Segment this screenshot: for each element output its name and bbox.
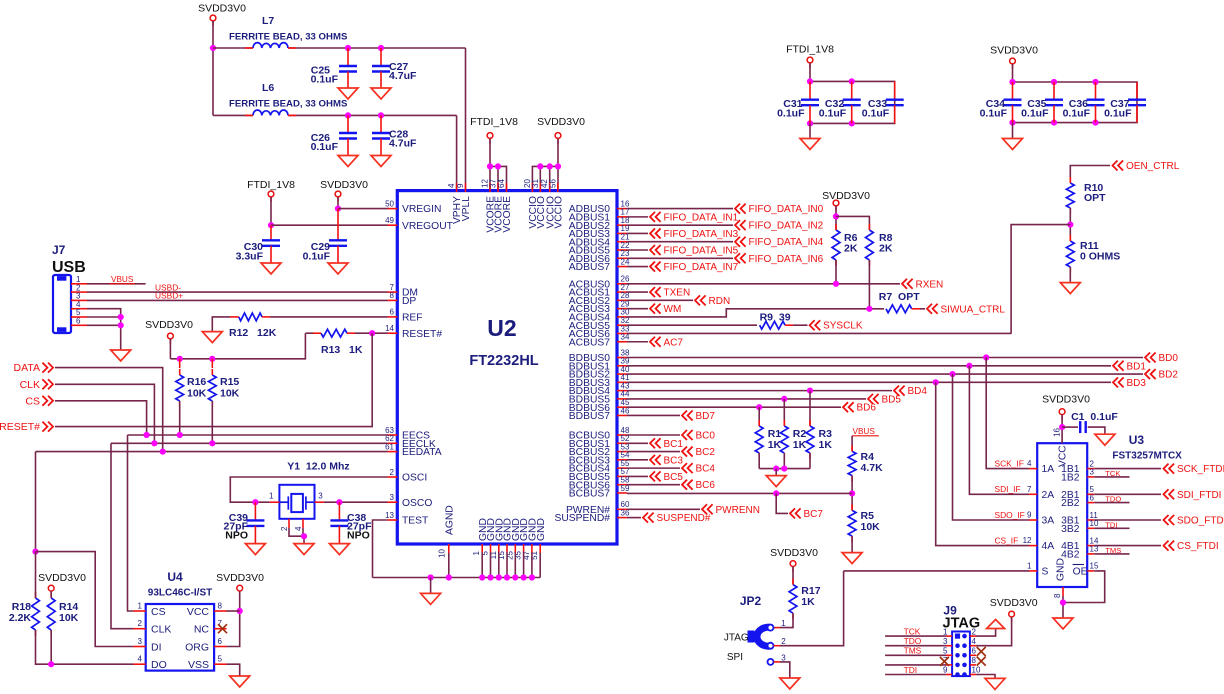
svg-text:VPLL: VPLL (461, 196, 472, 221)
net label BC3 (650, 455, 683, 467)
junction R16 top (177, 356, 183, 362)
junction (555, 163, 561, 169)
pin 2 J7 (71, 283, 87, 292)
wire to R3 (809, 391, 811, 426)
junction (1051, 79, 1057, 85)
svg-text:SDI_FTDI: SDI_FTDI (1177, 490, 1221, 501)
net label VBUS (109, 275, 135, 284)
junction R6/R8 (833, 213, 839, 219)
svg-text:WM: WM (664, 304, 682, 315)
wire VCCIO pin 20 (532, 166, 558, 190)
wire JP2 pin 3 to ground (780, 662, 790, 678)
pin 12 VCORE (481, 179, 497, 233)
svg-text:VBUS: VBUS (111, 275, 134, 284)
wire R12 to REF (270, 316, 388, 318)
pin 55 BCBUS4 (569, 459, 630, 475)
svg-text:OSCI: OSCI (402, 473, 427, 484)
svg-text:0.1uF: 0.1uF (303, 251, 331, 263)
pin 46 BDBUS7 (569, 406, 630, 422)
svg-text:PWRENN: PWRENN (716, 505, 760, 516)
port RESET# (0, 421, 53, 433)
junction (479, 574, 485, 580)
net label WM (650, 304, 681, 316)
svg-text:0.1uF: 0.1uF (819, 108, 847, 120)
net label AC7 (650, 337, 683, 349)
svg-text:RESET#: RESET# (402, 329, 442, 340)
pin 27 ACBUS1 (569, 283, 630, 299)
junction (537, 163, 543, 169)
wire VCCIO pin 56 (557, 139, 559, 191)
svg-text:BD6: BD6 (857, 403, 877, 414)
pin 1 marker (square) (955, 634, 960, 639)
svg-text:CS: CS (25, 395, 40, 407)
ground C34 group (1003, 139, 1023, 150)
svg-text:1A: 1A (1042, 464, 1055, 475)
svg-text:9: 9 (943, 666, 948, 675)
svg-text:SDO_FTDI: SDO_FTDI (1177, 516, 1224, 527)
pin 37 VCORE (489, 179, 505, 233)
wire J9 left (885, 645, 946, 647)
wire SDO_FTDI (1094, 519, 1161, 521)
svg-text:4A: 4A (1042, 541, 1055, 552)
power SVDD3V0 (R15/R16) (168, 333, 174, 344)
svg-text:C1 0.1uF: C1 0.1uF (1071, 411, 1118, 423)
net label SDI_FTDI (1164, 489, 1222, 501)
svg-text:6: 6 (972, 647, 977, 656)
pin 14 RESET# (385, 324, 442, 340)
svg-text:FERRITE BEAD, 33 OHMS: FERRITE BEAD, 33 OHMS (229, 32, 348, 43)
pin 8 J9 (970, 656, 977, 665)
pin 32 ACBUS5 (569, 316, 630, 332)
wire C31 group rails (810, 81, 895, 123)
wire R12 to ground (212, 317, 230, 332)
wire EECS row (128, 434, 388, 436)
wire BDBUS5 (627, 398, 866, 400)
resistor R2 (780, 420, 806, 459)
svg-text:FST3257MTCX: FST3257MTCX (1112, 451, 1182, 462)
wire VCC pin 16 (1061, 415, 1063, 444)
pin 6 J7 (71, 317, 87, 326)
junction (529, 574, 535, 580)
pin 10 J9 (970, 666, 981, 675)
junction C1 (1059, 424, 1065, 430)
ground J7 (111, 350, 131, 361)
wire VCC/ORG tie (227, 591, 240, 646)
svg-text:SVDD3V0: SVDD3V0 (198, 3, 246, 15)
wire JP2 to U3 S (844, 570, 1029, 572)
junction VREGIN (335, 206, 341, 212)
pin 50 VREGIN (385, 199, 441, 215)
junction BD0 tap (983, 354, 989, 360)
wire SVDD3V0 to R6 (835, 206, 837, 230)
wire EECS to U4 CS (128, 435, 134, 611)
svg-text:56: 56 (548, 179, 557, 188)
junction (487, 163, 493, 169)
wire TDO (1094, 502, 1129, 504)
svg-text:U4: U4 (167, 570, 183, 584)
svg-text:2: 2 (390, 468, 395, 477)
svg-text:SDI_IF: SDI_IF (995, 484, 1021, 494)
wire C1 to ground (1088, 427, 1105, 434)
inductor L6 (213, 82, 457, 115)
svg-text:13: 13 (385, 511, 394, 520)
wire ground rail (373, 577, 541, 579)
net label FIFO_DATA_IN4 (735, 237, 824, 249)
junction (547, 163, 553, 169)
power SVDD3V0 (U3 VCC) (1059, 409, 1065, 420)
junction R3 tap (807, 388, 813, 394)
svg-text:FTDI_1V8: FTDI_1V8 (247, 179, 295, 191)
op-amp U2 FT2232HL body (397, 191, 617, 544)
wire VBUS to R4 (851, 436, 853, 452)
pin 25 GND (505, 518, 522, 560)
wire R11 to ground (1069, 267, 1071, 283)
net label FIFO_DATA_IN0 (735, 204, 824, 216)
capacitor C37 (1104, 82, 1146, 123)
net label FIFO_DATA_IN6 (735, 253, 824, 265)
pin 9 VPLL (456, 183, 472, 221)
svg-text:TDI: TDI (904, 665, 918, 675)
wire VCC (227, 610, 240, 612)
wire R2 bottom (783, 453, 785, 469)
power SVDD3V0 (R14) (48, 585, 54, 596)
svg-text:VCCIO: VCCIO (553, 196, 564, 229)
wire DATA to EEDATA (55, 368, 163, 452)
wire R4 to BCBUS7 (851, 476, 853, 511)
power SVDD3V0 (C34 group) (1010, 58, 1016, 69)
wire VCORE pin 12 (489, 139, 491, 191)
wire GND stem (490, 553, 492, 578)
ground R1-R3 (766, 476, 786, 487)
junction R8 bottom (866, 306, 872, 312)
net label BD7 (682, 410, 715, 422)
wire ACBUS2 (627, 299, 693, 301)
wire TMS (1094, 553, 1129, 555)
svg-text:10: 10 (972, 666, 981, 675)
wire ACBUS0 RXEN (627, 283, 900, 285)
svg-text:10: 10 (438, 548, 447, 557)
pin 54 BCBUS3 (569, 451, 630, 467)
svg-text:SVDD3V0: SVDD3V0 (537, 116, 585, 128)
svg-text:3: 3 (390, 493, 395, 502)
pin 51 GND (530, 518, 547, 560)
svg-text:VSS: VSS (188, 659, 209, 671)
pin 44 BDBUS5 (569, 390, 630, 406)
svg-text:3: 3 (943, 637, 948, 646)
ground Y1 (294, 544, 314, 555)
pin 5 VSS (188, 655, 227, 671)
svg-text:8: 8 (218, 602, 223, 611)
svg-text:2A: 2A (1042, 490, 1055, 501)
pin 12 4A (1023, 536, 1055, 552)
wire FTDI_1V8 stem (809, 63, 811, 81)
capacitor C28 (372, 115, 417, 155)
svg-text:10K: 10K (59, 612, 79, 624)
connector J7 body (53, 275, 71, 333)
svg-text:10K: 10K (220, 388, 240, 400)
svg-text:BC6: BC6 (696, 480, 716, 491)
wire VREGIN row (338, 208, 389, 210)
wire R8 to SIWUA (868, 260, 870, 309)
wire L6 rail to VPHY pin 4 (456, 115, 458, 190)
wire ACBUS6 (627, 332, 1011, 334)
net label FIFO_DATA_IN3 (650, 228, 739, 240)
pin 16 ADBUS0 (569, 199, 630, 215)
ground J9 (985, 678, 1005, 689)
wire ACBUS3 (627, 308, 648, 310)
pin 53 BCBUS2 (569, 442, 630, 458)
wire BDBUS3 (627, 381, 1111, 383)
pin 38 BDBUS0 (569, 348, 630, 364)
power SVDD3V0 (U4 VCC) (237, 585, 243, 596)
pin 4 J9 (970, 637, 977, 646)
capacitor C39 (223, 502, 264, 543)
pin 56 VCCIO (548, 179, 564, 229)
svg-text:4: 4 (972, 637, 977, 646)
net label BD3 (1113, 377, 1146, 389)
ground C31 group (800, 139, 820, 150)
svg-text:NPO: NPO (347, 529, 370, 541)
pin 26 ACBUS0 (569, 275, 630, 291)
wire R13 to RESET# (355, 332, 388, 334)
svg-text:GND: GND (1056, 558, 1067, 581)
svg-text:BD2: BD2 (1159, 370, 1179, 381)
svg-text:CLK: CLK (151, 624, 171, 636)
net label BD1 (1113, 361, 1146, 373)
pin 16 VCC (1053, 427, 1069, 467)
svg-text:ADBUS7: ADBUS7 (569, 262, 610, 273)
connector J9 body (952, 632, 970, 677)
resistor R9 (760, 312, 793, 330)
svg-text:SVDD3V0: SVDD3V0 (145, 319, 193, 331)
svg-text:TMS: TMS (904, 646, 922, 656)
junction R16 bottom (177, 432, 183, 438)
pin 7 2A (1027, 485, 1054, 501)
pin 52 BCBUS1 (569, 434, 630, 450)
svg-text:14: 14 (385, 324, 394, 333)
ground C26 (338, 156, 358, 167)
junction R15 top (209, 356, 215, 362)
svg-text:BCBUS7: BCBUS7 (569, 489, 610, 500)
wire VCCIO pin 31 (539, 166, 541, 190)
svg-text:BC4: BC4 (696, 464, 716, 475)
wire BDBUS0 (627, 357, 1143, 359)
power SVDD3V0 (J9 pin 4) (1009, 611, 1015, 622)
jumper JP2 shunt (757, 627, 772, 646)
svg-text:ACBUS7: ACBUS7 (569, 337, 610, 348)
wire EECLK to U4 CLK (111, 443, 134, 628)
power SVDD3V0 (R17) (790, 561, 796, 572)
svg-text:10: 10 (1090, 519, 1099, 528)
wire R1-R3 common (759, 468, 810, 470)
svg-text:TDI: TDI (1105, 520, 1117, 529)
pin 7 NC (194, 619, 227, 635)
wire BCBUS5 (627, 475, 648, 477)
wire ADBUS2 (627, 224, 733, 226)
junction BD2 tap (949, 371, 955, 377)
svg-text:3: 3 (318, 492, 323, 501)
svg-text:4.7uF: 4.7uF (389, 70, 417, 82)
net label SCK_FTDI (1164, 464, 1224, 476)
junction R15 bottom (209, 440, 215, 446)
svg-text:FT2232HL: FT2232HL (469, 353, 538, 369)
pin 4 DO (134, 655, 167, 671)
svg-text:RDN: RDN (709, 296, 731, 307)
svg-text:SVDD3V0: SVDD3V0 (1042, 394, 1090, 406)
wire to ground symbol (430, 578, 432, 594)
resistor R8 (866, 224, 893, 266)
net label BC5 (650, 471, 683, 483)
pin 6 J9 (970, 647, 977, 656)
pin 60 PWREN# (566, 500, 630, 516)
svg-text:BC3: BC3 (664, 455, 684, 466)
resistor R16 (176, 359, 207, 407)
svg-text:SVDD3V0: SVDD3V0 (990, 597, 1038, 609)
power FTDI_1V8 (C31 group) (807, 57, 813, 68)
wire R18 top (35, 552, 37, 598)
wire BCBUS3 (627, 459, 648, 461)
pin 19 ADBUS3 (569, 224, 630, 240)
wire BDBUS6 (627, 406, 841, 408)
wire ADBUS4 (627, 241, 733, 243)
net label CS_FTDI (1164, 541, 1219, 553)
capacitor C31 (777, 81, 819, 123)
svg-text:SVDD3V0: SVDD3V0 (320, 179, 368, 191)
wire R6 to RXEN (835, 260, 837, 284)
svg-text:6: 6 (1090, 493, 1095, 502)
resistor R1 (755, 420, 781, 459)
svg-text:VREGIN: VREGIN (402, 204, 441, 215)
svg-text:8: 8 (972, 656, 977, 665)
ground R11 (1060, 283, 1080, 294)
resistor R3 (806, 420, 832, 459)
ground C39 (245, 544, 265, 555)
svg-text:31: 31 (531, 179, 540, 188)
pin 3 JP2 (768, 653, 787, 665)
svg-text:2K: 2K (844, 243, 858, 255)
svg-text:2: 2 (972, 627, 977, 636)
wire BCBUS1 (627, 442, 648, 444)
svg-text:AC7: AC7 (664, 337, 684, 348)
svg-text:BD1: BD1 (1127, 361, 1147, 372)
pin 62 EECLK (385, 434, 436, 450)
svg-text:50: 50 (385, 199, 394, 208)
svg-text:DO: DO (151, 659, 167, 671)
pin 35 GND (514, 518, 531, 560)
pin 11 3B1 (1061, 511, 1098, 527)
ground C1 (1095, 434, 1115, 445)
junction (504, 574, 510, 580)
power SVDD3V0 (VCCIO) (555, 133, 561, 144)
svg-text:BD3: BD3 (1127, 378, 1147, 389)
junction CLK (151, 440, 157, 446)
pin 1 CS (134, 602, 166, 618)
wire J9 pin 2 to power arrow (976, 629, 996, 637)
wire to ground (775, 469, 777, 476)
wire R15 to EECLK (211, 401, 213, 443)
svg-text:49: 49 (385, 216, 394, 225)
pin 64 VCORE (497, 179, 513, 233)
wire J9 left (885, 635, 946, 637)
wire BD0 to U3 1A (986, 358, 1029, 469)
pin 57 BCBUS5 (569, 467, 630, 483)
port DATA (14, 362, 53, 374)
capacitor C33 (862, 81, 904, 123)
svg-text:OPT: OPT (1084, 192, 1106, 204)
svg-text:64: 64 (497, 179, 506, 188)
pin 20 VCCIO (523, 179, 539, 229)
wire R9 to SYSCLK (793, 324, 808, 326)
wire GND stem (531, 553, 533, 578)
wire J7 pin 4 to ground (87, 309, 121, 350)
svg-text:L7: L7 (262, 15, 274, 27)
wire GND stem (539, 553, 541, 578)
junction RESET# net (369, 330, 375, 336)
pin 4 J7 (71, 300, 87, 309)
svg-text:CLK: CLK (20, 379, 40, 391)
wire R13 left (305, 332, 313, 334)
wire R18 to DO row (36, 630, 134, 664)
pin 18 ADBUS2 (569, 216, 630, 232)
pin 3 Y1 (315, 492, 325, 503)
junction (807, 78, 813, 84)
pin 7 DM (388, 283, 419, 299)
pin 41 BDBUS3 (569, 373, 630, 389)
junction R18 top (32, 549, 38, 555)
wire SVDD3V0 rail to R13 (170, 333, 305, 359)
wire CLK to EECLK (55, 384, 154, 443)
svg-text:1: 1 (943, 627, 948, 636)
svg-text:TXEN: TXEN (664, 288, 691, 299)
wire BD3 to U3 4A (936, 382, 1029, 545)
svg-text:JP2: JP2 (740, 594, 762, 608)
pin 13 TEST (385, 511, 429, 527)
wire SDI_FTDI (1094, 493, 1161, 495)
pin 10 AGND (438, 505, 456, 558)
junction VREGOUT (268, 222, 274, 228)
wire VCORE pin 64 (490, 166, 507, 190)
pin 49 VREGOUT (385, 216, 454, 232)
pin 47 GND (522, 518, 539, 560)
svg-text:Y1 12.0 Mhz: Y1 12.0 Mhz (287, 461, 349, 473)
net label BD2 (1145, 369, 1178, 381)
svg-text:10K: 10K (861, 521, 881, 533)
ground JP2 (780, 678, 800, 689)
wire EEDATA row (36, 451, 388, 453)
wire CS_FTDI (1094, 545, 1161, 547)
port CS (25, 395, 53, 407)
pin 8 GND (1053, 558, 1067, 598)
wire AGND stem (448, 553, 450, 578)
svg-text:DP: DP (402, 296, 416, 307)
pin 11 GND (489, 518, 506, 559)
resistor R7 (879, 291, 920, 313)
pin 2 Y1 (280, 519, 289, 531)
capacitor C35 (1021, 82, 1063, 123)
wire SVDD3V0 down (337, 197, 339, 209)
wire USBD- to DM (87, 291, 388, 293)
wire BCBUS6 (627, 484, 680, 486)
svg-text:R13 1K: R13 1K (321, 344, 363, 356)
pin 39 BDBUS1 (569, 357, 630, 373)
junction (807, 120, 813, 126)
svg-text:0 OHMS: 0 OHMS (1080, 251, 1120, 263)
pin 6 ORG (185, 637, 226, 653)
svg-text:2: 2 (280, 526, 289, 531)
power FTDI_1V8 (VCORE) (487, 133, 493, 144)
svg-text:SVDD3V0: SVDD3V0 (822, 190, 870, 202)
pin 1 J7 (71, 275, 87, 284)
